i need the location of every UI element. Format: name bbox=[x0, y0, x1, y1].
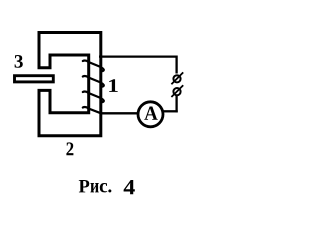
iron bar 3 bbox=[15, 76, 54, 82]
coil 1 turn c bbox=[83, 92, 104, 103]
terminal T2 slash bbox=[171, 85, 183, 97]
wire right upper bbox=[175, 56, 177, 74]
ammeter A bbox=[138, 102, 163, 127]
C-shaped magnetic core 2 bbox=[39, 33, 101, 136]
terminal T1 slash bbox=[171, 72, 183, 84]
label 3 bbox=[15, 55, 23, 68]
wire to ammeter bbox=[163, 110, 178, 112]
label 1 bbox=[109, 79, 118, 92]
terminal T1 bbox=[173, 75, 180, 82]
ammeter label A bbox=[144, 107, 157, 120]
coil 1 turn d bbox=[83, 107, 101, 113]
coil 1 turn a bbox=[83, 61, 104, 72]
caption number 4 bbox=[124, 180, 135, 194]
caption Рис. 4 bbox=[79, 180, 90, 192]
coil 1 turn b bbox=[83, 76, 104, 87]
wire ammeter to coil bbox=[100, 112, 138, 114]
label 2 bbox=[66, 142, 73, 155]
wire right lower bbox=[175, 96, 177, 113]
terminal T2 bbox=[173, 88, 180, 95]
wire top bbox=[99, 55, 177, 57]
